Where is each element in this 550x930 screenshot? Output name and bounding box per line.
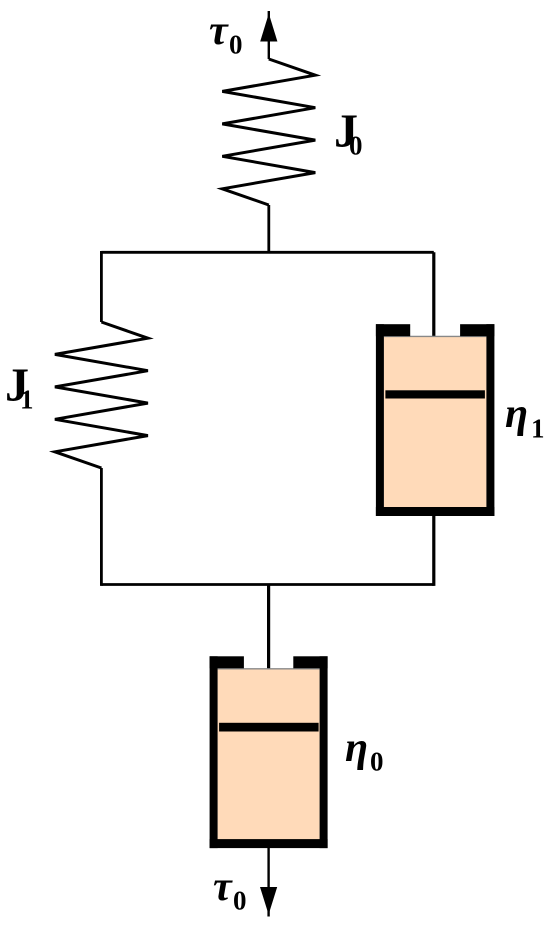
svg-text:0: 0	[370, 747, 384, 777]
dashpot eta0 top right tab	[293, 656, 327, 668]
svg-text:τ: τ	[209, 8, 229, 54]
wire bottom horizontal bus	[101, 583, 433, 586]
bottom stress arrow head	[260, 887, 277, 915]
spring J1	[55, 322, 148, 468]
dashpot eta0 top left tab	[210, 656, 244, 668]
dashpot eta0 left wall	[210, 656, 218, 848]
svg-text:τ: τ	[213, 864, 233, 910]
wire dashpot eta1 bottom to bus	[432, 516, 435, 586]
wire right branch down into dashpot eta1	[432, 252, 435, 390]
svg-text:1: 1	[531, 414, 545, 444]
wire bottom bus down into dashpot eta0	[267, 585, 270, 723]
dashpot eta1 right wall	[486, 324, 494, 516]
dashpot eta0 fluid fill	[218, 669, 320, 840]
svg-text:0: 0	[229, 30, 243, 60]
dashpot eta0 fluid surface line	[218, 668, 320, 670]
wire spring J1 bottom to bottom bus	[100, 468, 103, 586]
dashpot eta1 left wall	[376, 324, 384, 516]
bottom stress arrow shaft	[267, 848, 269, 917]
svg-text:η: η	[345, 725, 368, 771]
top stress arrow tau0 shaft	[268, 11, 270, 59]
top stress arrow head	[260, 14, 277, 42]
dashpot eta0 piston plate	[219, 723, 319, 732]
wire top horizontal bus	[101, 251, 433, 254]
svg-text:1: 1	[20, 385, 34, 415]
dashpot eta1 fluid surface line	[384, 335, 487, 337]
spring J0	[222, 59, 315, 205]
dashpot eta1 bottom wall	[376, 507, 495, 516]
svg-text:η: η	[505, 391, 528, 437]
dashpot eta0 bottom wall	[210, 839, 328, 848]
wire left branch down to spring J1	[100, 251, 103, 322]
dashpot eta1 top right tab	[460, 324, 494, 336]
dashpot eta1 fluid fill	[384, 336, 487, 507]
svg-text:0: 0	[349, 131, 363, 161]
dashpot eta0 right wall	[320, 656, 328, 848]
wire spring J0 bottom to node	[267, 205, 270, 252]
dashpot eta1 piston plate	[385, 390, 485, 398]
dashpot eta1 top left tab	[376, 324, 410, 336]
svg-text:0: 0	[233, 886, 247, 916]
